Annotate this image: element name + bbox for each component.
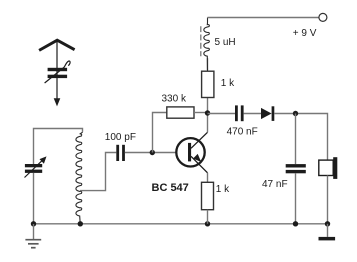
inductor 5uH core (dashed) (200, 26, 202, 56)
svg-text:1 k: 1 k (216, 184, 230, 195)
capacitor 100 pF plates (116, 145, 125, 161)
wire: ground rail bottom (34, 223, 328, 225)
svg-text:+ 9 V: + 9 V (293, 28, 317, 39)
junction base/330k (150, 150, 155, 155)
junction earpiece bottom (325, 221, 330, 226)
inductor L1 (tuning coil) (76, 132, 83, 224)
transistor Q1 circle (176, 138, 204, 166)
svg-text:470 nF: 470 nF (227, 127, 258, 138)
ground (chassis bar) right (327, 224, 329, 237)
svg-text:47 nF: 47 nF (262, 179, 288, 190)
svg-text:5 uH: 5 uH (215, 37, 236, 48)
svg-text:100 pF: 100 pF (105, 132, 136, 143)
resistor 1k (collector) (202, 71, 214, 97)
wire: 330k left leg (153, 113, 167, 153)
capacitor 47 nF plates (286, 164, 306, 173)
wire: coil tap to 100pF branch (80, 153, 116, 191)
wire: 470nF to diode (244, 113, 262, 115)
wire: earpiece to bottom rail (327, 176, 329, 224)
earpiece crystal bar (333, 157, 337, 179)
transistor collector stroke (191, 132, 208, 148)
trimmer adjustment stroke with curl (45, 61, 71, 83)
wire: emitter rail (207, 173, 209, 183)
wire: collector rail (207, 98, 209, 133)
wire: supply rail top (208, 17, 319, 19)
diode D1 (261, 108, 272, 119)
variable capacitor arrow (25, 161, 43, 178)
wire: collector node to 470nF (208, 113, 236, 115)
wire: diode to output node and speaker branch (274, 114, 327, 161)
wire: 330k right leg (194, 112, 208, 114)
capacitor 470 nF plates (235, 105, 244, 121)
wire: 1k emitter to rail (207, 210, 209, 224)
junction rail left (31, 221, 36, 226)
wire: base wire from 100pF to transistor (125, 152, 176, 154)
variable capacitor C1 plates (25, 164, 42, 173)
junction coil bottom (78, 221, 83, 226)
trimmer capacitor plates (48, 68, 68, 78)
ground (earth) left (25, 224, 41, 248)
wire: output node down to 47nF (295, 114, 297, 165)
antenna (39, 40, 75, 98)
junction output node (293, 111, 298, 116)
transistor base bar (188, 143, 191, 162)
inductor 5uH (204, 18, 210, 72)
junction collector node (205, 110, 210, 115)
resistor 1k (emitter) (202, 182, 214, 209)
junction emitter bottom (205, 221, 210, 226)
svg-text:1 k: 1 k (221, 78, 235, 89)
svg-text:BC 547: BC 547 (152, 182, 189, 194)
resistor 330k (167, 107, 194, 118)
transistor emitter stroke (191, 156, 208, 173)
wire: left rail below C1 (33, 173, 35, 224)
svg-text:330 k: 330 k (162, 94, 187, 105)
wire: tuned circuit top (34, 129, 83, 165)
terminal +9V (319, 13, 327, 21)
wire: 1k top to 5uH (207, 58, 209, 71)
antenna arrow head (54, 98, 61, 106)
wire: 47nF to bottom rail (295, 173, 297, 224)
transistor emitter arrow (193, 154, 201, 162)
junction 47nF bottom (293, 221, 298, 226)
earpiece LS1 body (319, 160, 333, 175)
